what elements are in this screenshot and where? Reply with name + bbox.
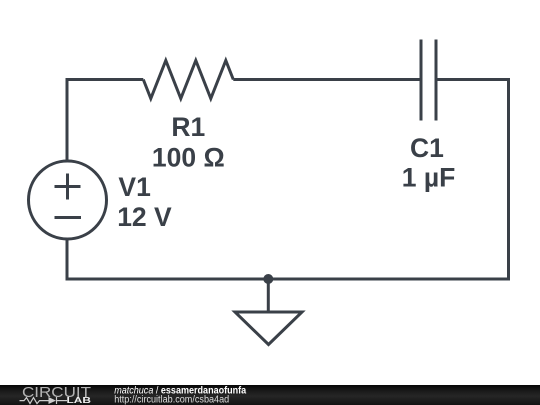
svg-text:http://circuitlab.com/csba4ad: http://circuitlab.com/csba4ad	[114, 395, 229, 405]
svg-text:12 V: 12 V	[117, 202, 172, 232]
svg-text:100 Ω: 100 Ω	[152, 143, 225, 173]
svg-text:1 µF: 1 µF	[402, 163, 456, 193]
svg-text:R1: R1	[171, 112, 205, 142]
svg-text:LAB: LAB	[67, 396, 92, 405]
svg-text:V1: V1	[118, 172, 150, 202]
svg-text:C1: C1	[410, 133, 444, 163]
